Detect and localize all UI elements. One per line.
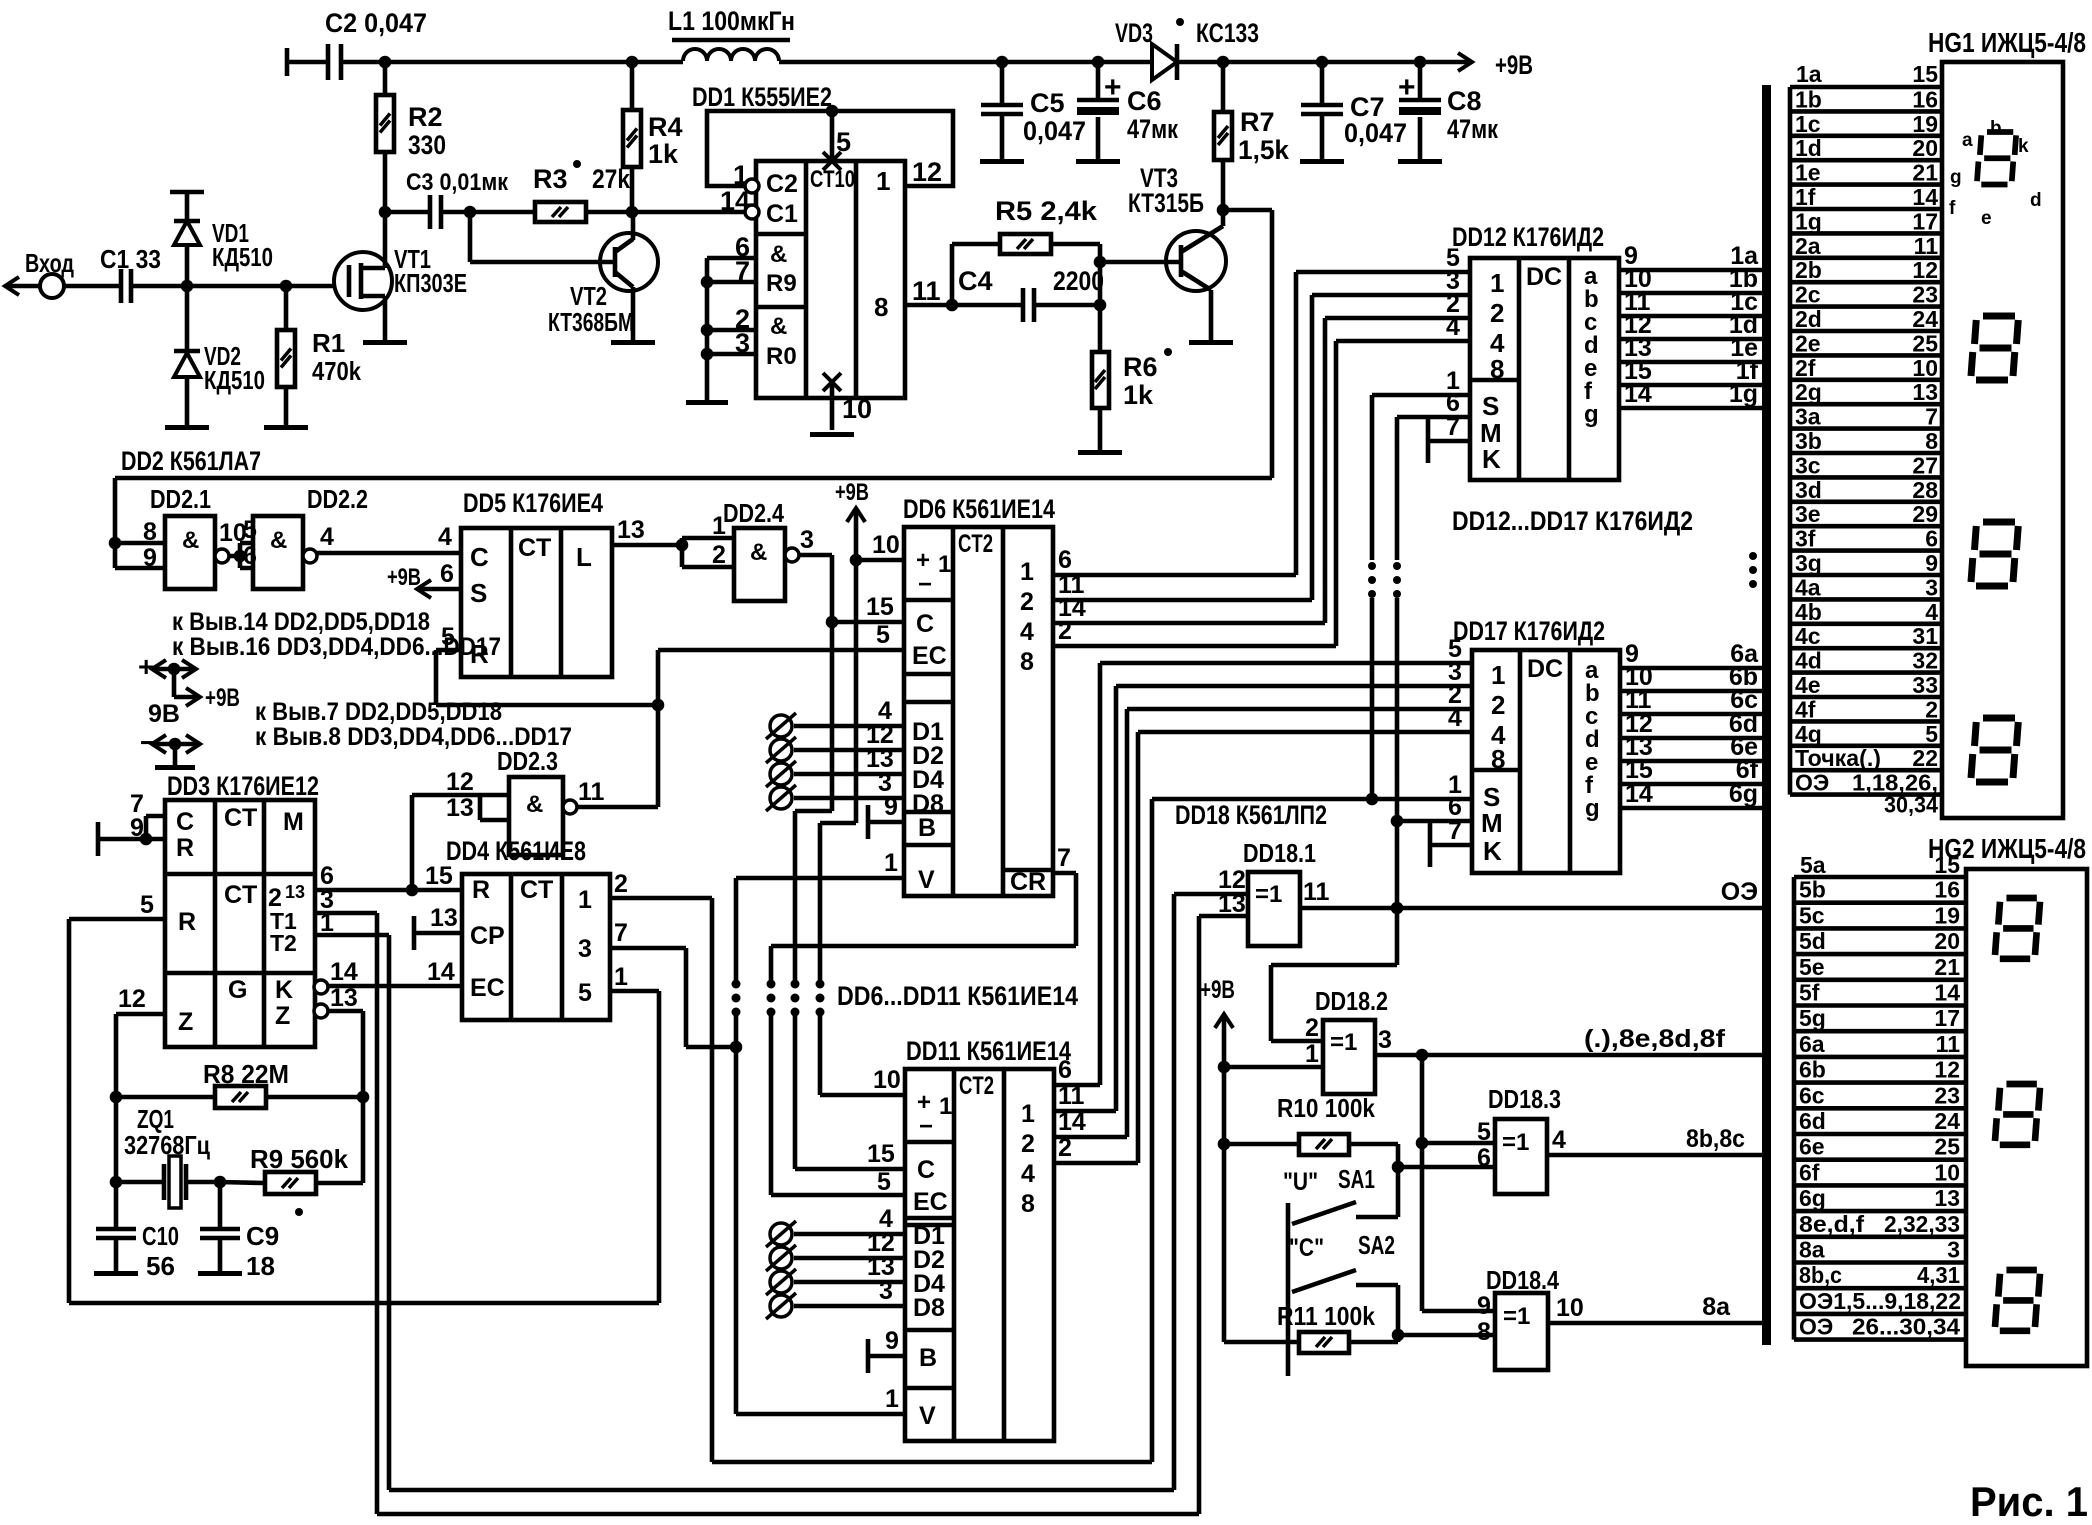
- svg-text:R10 100k: R10 100k: [1277, 1093, 1375, 1123]
- svg-text:15: 15: [867, 1140, 895, 1168]
- svg-text:2,32,33: 2,32,33: [1884, 1211, 1960, 1237]
- svg-text:29: 29: [1912, 501, 1938, 527]
- svg-text:Рис. 1: Рис. 1: [1970, 1478, 2088, 1525]
- svg-text:C3 0,01мк: C3 0,01мк: [406, 169, 509, 196]
- svg-text:15: 15: [1934, 852, 1960, 878]
- svg-text:C2 0,047: C2 0,047: [325, 8, 427, 38]
- svg-text:6: 6: [1058, 1056, 1072, 1084]
- svg-text:T2: T2: [270, 930, 297, 956]
- svg-text:DD18.2: DD18.2: [1315, 986, 1388, 1016]
- svg-text:5: 5: [441, 623, 455, 651]
- svg-text:КТ368БМ: КТ368БМ: [548, 307, 634, 337]
- svg-text:DD18.4: DD18.4: [1486, 1265, 1559, 1295]
- svg-text:DD3 К176ИЕ12: DD3 К176ИЕ12: [167, 771, 319, 801]
- svg-text:6c: 6c: [1799, 1082, 1825, 1108]
- svg-text:3: 3: [1947, 1237, 1960, 1263]
- svg-text:1k: 1k: [1123, 380, 1154, 410]
- svg-text:19: 19: [1934, 902, 1960, 928]
- svg-text:1: 1: [876, 166, 890, 196]
- svg-text:C2: C2: [766, 170, 798, 198]
- svg-text:ОЭ: ОЭ: [1795, 770, 1829, 796]
- svg-text:5: 5: [578, 979, 592, 1007]
- svg-text:7: 7: [1448, 817, 1462, 845]
- svg-text:5g: 5g: [1799, 1005, 1826, 1031]
- svg-text:CT2: CT2: [959, 1072, 994, 1100]
- svg-text:V: V: [918, 866, 935, 894]
- svg-text:11: 11: [1303, 878, 1330, 906]
- svg-text:5: 5: [140, 891, 154, 919]
- svg-text:3: 3: [735, 328, 750, 358]
- svg-text:5c: 5c: [1799, 902, 1825, 928]
- svg-text:1b: 1b: [1795, 86, 1822, 112]
- svg-text:CT10: CT10: [810, 166, 855, 193]
- svg-text:14: 14: [1625, 780, 1653, 808]
- svg-text:27: 27: [1912, 452, 1938, 478]
- svg-text:C1: C1: [766, 200, 798, 228]
- svg-text:DD2.4: DD2.4: [723, 498, 784, 528]
- svg-text:8: 8: [143, 518, 157, 546]
- svg-text:M: M: [283, 808, 304, 836]
- svg-text:11: 11: [1936, 1031, 1961, 1057]
- svg-text:+: +: [917, 1089, 931, 1116]
- svg-text:DD18.3: DD18.3: [1488, 1084, 1561, 1114]
- svg-text:14: 14: [1624, 380, 1652, 408]
- svg-text:КД510: КД510: [204, 365, 265, 395]
- svg-text:5: 5: [243, 516, 257, 544]
- svg-text:C: C: [176, 808, 194, 836]
- svg-text:CT: CT: [518, 534, 551, 562]
- svg-text:C10: C10: [142, 1221, 179, 1251]
- svg-text:19: 19: [1912, 111, 1938, 137]
- svg-text:EC: EC: [470, 974, 505, 1002]
- svg-text:K: K: [1482, 444, 1501, 474]
- svg-text:6: 6: [1925, 526, 1938, 552]
- svg-text:8: 8: [874, 292, 888, 322]
- svg-text:2200: 2200: [1053, 266, 1104, 296]
- svg-text:27k: 27k: [592, 164, 631, 194]
- svg-text:3b: 3b: [1795, 428, 1822, 454]
- svg-text:1g: 1g: [1729, 380, 1758, 408]
- svg-text:C6: C6: [1127, 86, 1162, 116]
- svg-text:2: 2: [1020, 588, 1034, 616]
- svg-text:6e: 6e: [1799, 1134, 1825, 1160]
- svg-text:1: 1: [712, 512, 726, 540]
- svg-text:CT2: CT2: [958, 530, 993, 558]
- svg-text:9: 9: [885, 1327, 899, 1355]
- svg-text:k: k: [2018, 136, 2029, 157]
- svg-text:SA1: SA1: [1338, 1164, 1375, 1194]
- svg-text:1e: 1e: [1795, 160, 1821, 186]
- svg-text:6f: 6f: [1799, 1159, 1820, 1185]
- svg-text:8b,c: 8b,c: [1799, 1262, 1842, 1288]
- svg-text:+9В: +9В: [205, 684, 240, 712]
- svg-text:Вход: Вход: [25, 248, 74, 278]
- svg-text:C: C: [917, 1156, 935, 1184]
- svg-text:8: 8: [1925, 428, 1938, 454]
- svg-text:R0: R0: [766, 343, 797, 370]
- svg-text:DD6...DD11 К561ИЕ14: DD6...DD11 К561ИЕ14: [837, 981, 1078, 1011]
- svg-text:КП303Е: КП303Е: [394, 268, 467, 298]
- svg-text:7: 7: [735, 256, 750, 286]
- svg-text:12: 12: [1934, 1057, 1960, 1083]
- svg-text:R6: R6: [1123, 352, 1158, 382]
- svg-text:DD11 К561ИЕ14: DD11 К561ИЕ14: [906, 1036, 1071, 1066]
- svg-text:4,31: 4,31: [1917, 1262, 1960, 1288]
- svg-text:6: 6: [243, 542, 257, 570]
- svg-text:25: 25: [1912, 330, 1938, 356]
- svg-text:DD2.1: DD2.1: [150, 484, 211, 514]
- svg-text:3d: 3d: [1795, 477, 1822, 503]
- svg-text:21: 21: [1934, 954, 1960, 980]
- svg-text:HG1 ИЖЦ5-4/8: HG1 ИЖЦ5-4/8: [1928, 27, 2086, 58]
- svg-text:4: 4: [1552, 1126, 1566, 1154]
- svg-text:R: R: [470, 639, 489, 669]
- svg-text:R: R: [472, 876, 490, 904]
- svg-text:3e: 3e: [1795, 501, 1821, 527]
- svg-text:4e: 4e: [1795, 672, 1821, 698]
- svg-text:M: M: [1481, 808, 1503, 838]
- svg-text:R5 2,4k: R5 2,4k: [995, 196, 1098, 226]
- svg-text:Z: Z: [275, 1002, 290, 1030]
- svg-text:ОЭ: ОЭ: [1721, 878, 1758, 906]
- svg-text:g: g: [1584, 401, 1599, 428]
- svg-text:g: g: [1950, 167, 1962, 188]
- svg-text:DD18 К561ЛП2: DD18 К561ЛП2: [1175, 800, 1327, 830]
- svg-text:3: 3: [800, 526, 814, 554]
- svg-text:a: a: [1962, 130, 1973, 151]
- svg-text:8a: 8a: [1702, 1293, 1731, 1321]
- svg-text:32768Гц: 32768Гц: [124, 1130, 210, 1160]
- svg-text:1: 1: [1021, 1100, 1035, 1128]
- svg-text:5: 5: [836, 127, 851, 157]
- svg-text:3g: 3g: [1795, 550, 1822, 576]
- svg-text:2: 2: [1305, 1014, 1319, 1042]
- svg-text:23: 23: [1912, 282, 1938, 308]
- svg-text:R7: R7: [1240, 107, 1275, 137]
- svg-text:1: 1: [885, 1385, 899, 1413]
- svg-text:13: 13: [1934, 1185, 1960, 1211]
- svg-text:=1: =1: [1330, 1029, 1357, 1056]
- svg-text:(.),8e,8d,8f: (.),8e,8d,8f: [1584, 1025, 1726, 1053]
- svg-text:28: 28: [1912, 477, 1938, 503]
- svg-text:CT: CT: [224, 804, 257, 832]
- svg-text:&: &: [526, 791, 543, 818]
- svg-text:V: V: [919, 1402, 936, 1430]
- svg-text:3f: 3f: [1795, 526, 1816, 552]
- svg-text:CT: CT: [520, 876, 553, 904]
- svg-text:0,047: 0,047: [1344, 118, 1407, 148]
- svg-text:8: 8: [1491, 744, 1505, 774]
- svg-text:EC: EC: [913, 1188, 948, 1216]
- svg-text:30,34: 30,34: [1884, 792, 1938, 818]
- svg-text:2c: 2c: [1795, 282, 1821, 308]
- svg-text:3c: 3c: [1795, 452, 1821, 478]
- svg-text:&: &: [750, 539, 767, 566]
- svg-text:10: 10: [1556, 1294, 1584, 1322]
- svg-text:DD5 К176ИЕ4: DD5 К176ИЕ4: [463, 488, 603, 518]
- svg-text:DD1 К555ИЕ2: DD1 К555ИЕ2: [692, 82, 832, 112]
- svg-text:8: 8: [1020, 648, 1034, 676]
- svg-text:к Выв.7 DD2,DD5,DD18: к Выв.7 DD2,DD5,DD18: [255, 698, 502, 726]
- svg-text:−: −: [918, 571, 932, 598]
- svg-text:2: 2: [1058, 1134, 1072, 1162]
- svg-text:330: 330: [408, 130, 446, 160]
- svg-text:C5: C5: [1030, 88, 1065, 118]
- svg-text:R: R: [176, 834, 194, 862]
- svg-text:10: 10: [1934, 1159, 1960, 1185]
- svg-text:2f: 2f: [1795, 355, 1816, 381]
- svg-text:DD2 К561ЛА7: DD2 К561ЛА7: [121, 446, 261, 476]
- svg-text:15: 15: [425, 862, 453, 890]
- svg-text:1c: 1c: [1795, 111, 1821, 137]
- svg-text:9В: 9В: [148, 700, 180, 728]
- svg-text:1: 1: [1490, 268, 1504, 298]
- svg-text:12: 12: [446, 768, 474, 796]
- svg-text:18: 18: [246, 1251, 275, 1281]
- svg-text:DD12 К176ИД2: DD12 К176ИД2: [1452, 222, 1604, 252]
- svg-text:+: +: [1104, 71, 1122, 104]
- svg-text:5b: 5b: [1799, 877, 1826, 903]
- svg-text:+9В: +9В: [1495, 50, 1533, 80]
- svg-text:+9В: +9В: [1200, 976, 1235, 1004]
- svg-text:8e,d,f: 8e,d,f: [1799, 1211, 1864, 1237]
- svg-text:3: 3: [1925, 574, 1938, 600]
- svg-text:CR: CR: [1010, 868, 1046, 896]
- svg-text:C: C: [470, 542, 489, 572]
- svg-text:8b,8c: 8b,8c: [1686, 1125, 1745, 1153]
- svg-text:56: 56: [146, 1251, 175, 1281]
- svg-text:&: &: [770, 241, 787, 268]
- svg-text:17: 17: [1934, 1005, 1960, 1031]
- svg-text:DD12...DD17 К176ИД2: DD12...DD17 К176ИД2: [1452, 506, 1693, 536]
- svg-text:4: 4: [1448, 704, 1462, 732]
- svg-text:14: 14: [427, 958, 455, 986]
- svg-text:4f: 4f: [1795, 696, 1816, 722]
- svg-text:8a: 8a: [1799, 1237, 1825, 1263]
- svg-text:2: 2: [1490, 298, 1504, 328]
- svg-text:VD3: VD3: [1115, 18, 1153, 48]
- svg-text:b: b: [1990, 118, 2002, 139]
- svg-text:13: 13: [285, 882, 305, 902]
- svg-text:G: G: [228, 976, 247, 1004]
- svg-text:24: 24: [1912, 306, 1938, 332]
- svg-text:=1: =1: [1502, 1129, 1529, 1156]
- svg-text:5e: 5e: [1799, 954, 1825, 980]
- svg-text:C4: C4: [958, 266, 993, 296]
- svg-text:+: +: [1398, 71, 1416, 104]
- svg-text:"C": "C": [1289, 1234, 1324, 1262]
- svg-text:31: 31: [1912, 623, 1938, 649]
- svg-text:6g: 6g: [1799, 1185, 1826, 1211]
- svg-text:13: 13: [446, 794, 474, 822]
- svg-text:2: 2: [1925, 696, 1938, 722]
- svg-text:+: +: [138, 651, 154, 682]
- svg-text:3: 3: [879, 1277, 893, 1305]
- svg-text:8: 8: [1490, 354, 1504, 384]
- svg-text:20: 20: [1912, 135, 1938, 161]
- svg-text:4: 4: [320, 523, 334, 551]
- svg-text:47мк: 47мк: [1127, 114, 1178, 144]
- svg-text:8: 8: [1021, 1190, 1035, 1218]
- svg-text:C8: C8: [1447, 86, 1482, 116]
- svg-text:13: 13: [330, 984, 358, 1012]
- svg-text:K: K: [1483, 836, 1502, 866]
- svg-text:11: 11: [578, 778, 605, 806]
- svg-text:КТ315Б: КТ315Б: [1128, 188, 1204, 218]
- svg-text:SA2: SA2: [1358, 1230, 1395, 1260]
- svg-text:+: +: [916, 547, 930, 574]
- svg-text:1: 1: [1305, 1040, 1319, 1068]
- svg-text:20: 20: [1934, 928, 1960, 954]
- svg-text:R8 22М: R8 22М: [203, 1059, 289, 1089]
- svg-text:R9 560k: R9 560k: [250, 1144, 349, 1174]
- svg-text:1f: 1f: [1795, 184, 1816, 210]
- svg-text:R9: R9: [766, 270, 797, 297]
- svg-text:24: 24: [1934, 1108, 1960, 1134]
- svg-text:КС133: КС133: [1196, 18, 1259, 48]
- svg-text:22: 22: [1912, 745, 1938, 771]
- svg-text:4: 4: [438, 523, 452, 551]
- svg-text:C1 33: C1 33: [100, 244, 161, 274]
- svg-text:g: g: [1585, 795, 1600, 822]
- svg-text:12: 12: [1912, 257, 1938, 283]
- svg-text:14: 14: [330, 958, 358, 986]
- svg-text:9: 9: [1477, 1292, 1491, 1320]
- svg-text:DD18.1: DD18.1: [1243, 838, 1316, 868]
- svg-text:4a: 4a: [1795, 574, 1821, 600]
- svg-text:2: 2: [614, 870, 628, 898]
- svg-text:1: 1: [578, 886, 592, 914]
- svg-text:10: 10: [842, 394, 872, 424]
- svg-text:R11 100k: R11 100k: [1277, 1301, 1375, 1331]
- svg-text:S: S: [470, 578, 487, 608]
- svg-text:1: 1: [884, 849, 898, 877]
- svg-text:d: d: [2030, 190, 2042, 211]
- svg-text:4: 4: [1021, 1160, 1035, 1188]
- svg-text:D8: D8: [913, 1294, 945, 1322]
- svg-text:6b: 6b: [1799, 1057, 1826, 1083]
- svg-text:14: 14: [1058, 1108, 1086, 1136]
- svg-text:"U": "U": [1283, 1168, 1318, 1196]
- svg-text:12: 12: [912, 157, 942, 187]
- svg-text:L1 100мкГн: L1 100мкГн: [668, 6, 795, 36]
- svg-text:7: 7: [1925, 404, 1938, 430]
- svg-text:5: 5: [877, 1168, 891, 1196]
- svg-text:K: K: [275, 976, 293, 1004]
- svg-text:1: 1: [1020, 558, 1034, 586]
- svg-text:1: 1: [320, 909, 334, 937]
- svg-text:DD2.3: DD2.3: [497, 746, 558, 776]
- svg-text:12: 12: [118, 985, 146, 1013]
- svg-text:47мк: 47мк: [1447, 114, 1498, 144]
- svg-text:2: 2: [1058, 617, 1072, 645]
- svg-text:DD2.2: DD2.2: [307, 484, 368, 514]
- svg-text:8: 8: [1477, 1318, 1491, 1346]
- svg-text:4g: 4g: [1795, 721, 1822, 747]
- svg-text:2: 2: [712, 541, 726, 569]
- svg-text:CP: CP: [470, 922, 505, 950]
- svg-text:2b: 2b: [1795, 257, 1822, 283]
- svg-text:5f: 5f: [1799, 980, 1820, 1006]
- svg-text:1k: 1k: [648, 139, 679, 169]
- svg-text:DD4 К561ИЕ8: DD4 К561ИЕ8: [446, 836, 586, 866]
- svg-text:1: 1: [938, 551, 951, 578]
- svg-text:4: 4: [1925, 599, 1938, 625]
- svg-text:7: 7: [1446, 413, 1460, 441]
- svg-text:33: 33: [1912, 672, 1938, 698]
- svg-text:16: 16: [1934, 877, 1960, 903]
- svg-text:R: R: [178, 908, 196, 936]
- svg-text:11: 11: [912, 276, 941, 306]
- svg-text:21: 21: [1912, 160, 1938, 186]
- svg-text:1g: 1g: [1795, 208, 1822, 234]
- svg-text:16: 16: [1912, 86, 1938, 112]
- svg-text:10: 10: [873, 1066, 901, 1094]
- svg-text:3: 3: [578, 935, 592, 963]
- svg-text:C: C: [916, 610, 934, 638]
- svg-text:23: 23: [1934, 1082, 1960, 1108]
- svg-text:1: 1: [1491, 660, 1505, 690]
- svg-text:&: &: [182, 527, 199, 554]
- svg-text:7: 7: [614, 919, 628, 947]
- svg-text:КД510: КД510: [212, 242, 273, 272]
- svg-text:9: 9: [130, 814, 144, 842]
- svg-text:1a: 1a: [1796, 61, 1822, 87]
- svg-text:1: 1: [614, 963, 628, 991]
- svg-text:14: 14: [720, 186, 750, 216]
- svg-text:2: 2: [1491, 690, 1505, 720]
- svg-text:13: 13: [430, 904, 458, 932]
- svg-text:3a: 3a: [1795, 404, 1821, 430]
- svg-text:&: &: [270, 527, 287, 554]
- svg-text:15: 15: [866, 593, 894, 621]
- svg-text:R4: R4: [648, 112, 683, 142]
- svg-text:10: 10: [872, 531, 900, 559]
- svg-text:15: 15: [1912, 61, 1938, 87]
- svg-text:0,047: 0,047: [1023, 116, 1086, 146]
- svg-text:R2: R2: [408, 102, 443, 132]
- svg-text:R3: R3: [533, 164, 568, 194]
- svg-text:ОЭ1,5...9,18,22: ОЭ1,5...9,18,22: [1799, 1288, 1961, 1314]
- svg-text:=1: =1: [1503, 1303, 1530, 1330]
- svg-text:S: S: [1482, 391, 1499, 421]
- svg-text:5d: 5d: [1799, 928, 1826, 954]
- svg-text:ОЭ: ОЭ: [1799, 1314, 1833, 1340]
- svg-text:B: B: [918, 814, 936, 842]
- svg-text:13: 13: [617, 516, 645, 544]
- svg-text:C9: C9: [246, 1221, 279, 1251]
- svg-text:1,5k: 1,5k: [1238, 135, 1290, 165]
- svg-text:EC: EC: [912, 642, 947, 670]
- svg-text:17: 17: [1912, 208, 1938, 234]
- svg-text:470k: 470k: [312, 356, 361, 386]
- svg-text:+9В: +9В: [387, 564, 421, 591]
- svg-text:2d: 2d: [1795, 306, 1822, 332]
- svg-text:6d: 6d: [1799, 1108, 1826, 1134]
- svg-text:7: 7: [1057, 844, 1071, 872]
- svg-text:R1: R1: [312, 328, 345, 358]
- svg-text:11: 11: [1058, 1082, 1085, 1110]
- svg-text:5: 5: [1477, 1118, 1491, 1146]
- svg-text:10: 10: [1912, 355, 1938, 381]
- svg-text:26...30,34: 26...30,34: [1852, 1314, 1960, 1340]
- svg-text:9: 9: [143, 544, 157, 572]
- svg-text:DC: DC: [1527, 655, 1563, 683]
- svg-text:CT: CT: [224, 881, 257, 909]
- svg-text:5a: 5a: [1800, 852, 1826, 878]
- svg-text:4d: 4d: [1795, 648, 1822, 674]
- svg-text:+9В: +9В: [835, 479, 869, 506]
